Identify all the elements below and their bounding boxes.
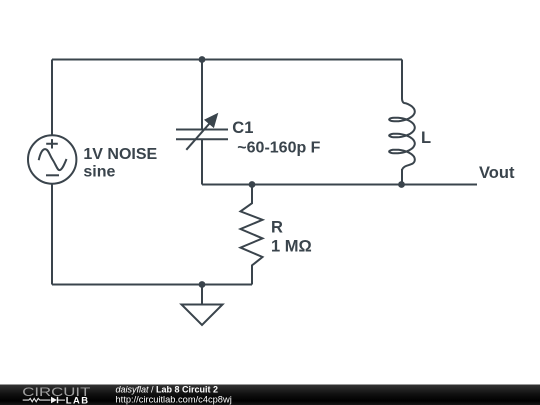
capacitor C1 (variable) bbox=[176, 124, 228, 150]
wire inductor bottom lead bbox=[401, 169, 403, 185]
wire left vertical lower bbox=[51, 183, 53, 285]
wire capacitor top lead bbox=[201, 60, 203, 130]
CircuitLab logo resistor zigzag bbox=[23, 398, 51, 401]
svg-text:~60-160p F: ~60-160p F bbox=[237, 139, 320, 156]
wire left vertical upper bbox=[51, 60, 53, 137]
voltage source V1 sine bbox=[28, 135, 76, 183]
svg-text:daisyflat / Lab 8 Circuit 2: daisyflat / Lab 8 Circuit 2 bbox=[116, 385, 219, 395]
node junction middle-right (inductor bottom / Vout) bbox=[398, 181, 405, 188]
svg-text:1 MΩ: 1 MΩ bbox=[271, 238, 312, 256]
node junction middle-left (resistor top) bbox=[249, 181, 256, 188]
resistor R bbox=[241, 185, 263, 285]
svg-text:C1: C1 bbox=[232, 119, 253, 137]
CircuitLab logo diode bbox=[51, 397, 57, 403]
wire middle horizontal bbox=[202, 184, 477, 186]
svg-text:LAB: LAB bbox=[66, 395, 90, 405]
wire top horizontal bbox=[52, 59, 402, 61]
svg-text:http://circuitlab.com/c4cp8wj: http://circuitlab.com/c4cp8wj bbox=[116, 394, 232, 404]
wire ground lead bbox=[201, 285, 203, 305]
ground bbox=[182, 305, 223, 326]
inductor L coil bbox=[389, 99, 415, 171]
node junction ground bbox=[199, 281, 206, 288]
svg-text:1V NOISE: 1V NOISE bbox=[83, 146, 157, 163]
capacitor C1 arrowhead bbox=[204, 113, 218, 128]
wire capacitor bottom lead bbox=[201, 140, 203, 185]
node junction top bbox=[199, 56, 206, 63]
svg-text:L: L bbox=[421, 129, 431, 147]
wire bottom horizontal bbox=[52, 284, 252, 286]
svg-text:Vout: Vout bbox=[479, 164, 515, 182]
wire right vertical to inductor bbox=[401, 60, 403, 100]
svg-text:R: R bbox=[271, 219, 283, 237]
svg-text:sine: sine bbox=[83, 163, 115, 180]
